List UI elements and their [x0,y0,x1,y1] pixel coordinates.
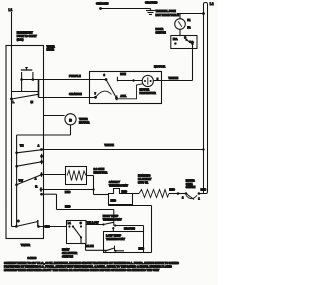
svg-text:PROTECTOR: PROTECTOR [140,91,156,95]
svg-text:THERMOSTAT: THERMOSTAT [103,218,122,222]
svg-text:2.2 OHM: 2.2 OHM [94,167,106,171]
svg-text:RUN: RUN [120,72,126,76]
timer contact mid lever [15,165,18,168]
svg-text:C: C [80,222,82,225]
wire door switch to motor white [192,44,194,49]
svg-text:WHITE: WHITE [105,143,114,147]
svg-text:L: L [13,100,15,104]
svg-text:SWITCH: SWITCH [156,30,166,34]
motor box [90,72,162,104]
svg-text:RED: RED [65,190,71,194]
svg-text:THERMAL FUSE: THERMAL FUSE [156,9,177,13]
svg-text:(N.O.): (N.O.) [17,39,24,42]
svg-text:THERMOSTAT: THERMOSTAT [109,184,128,188]
timer selector lever C [12,226,17,228]
wire L2 rail [204,3,208,194]
svg-text:NUMBERS WHEN SKETCHING ABOUT T: NUMBERS WHEN SKETCHING ABOUT THIS DRYER … [4,268,160,272]
low temp thermostat box [104,232,144,253]
svg-text:CHASSIS: CHASSIS [96,2,109,6]
svg-text:MOMENTARY: MOMENTARY [17,31,33,34]
svg-text:KNOB: KNOB [47,48,55,52]
svg-text:3-16996: 3-16996 [28,257,37,260]
timer box [6,46,44,239]
svg-text:TH: TH [20,143,24,147]
wire pushbutton row [12,91,39,93]
heating element [139,190,169,198]
high temp thermostat contact [102,223,104,225]
svg-text:WHITE: WHITE [169,76,179,80]
svg-text:RED: RED [111,199,117,203]
svg-text:RED: RED [65,205,71,209]
svg-text:CONNECT DRYER TO 230 V.A.C., 6: CONNECT DRYER TO 230 V.A.C., 60 HZ. INDI… [4,261,179,265]
svg-text:PURPLE: PURPLE [69,74,81,78]
svg-text:ORANGE: ORANGE [69,92,82,96]
timer contact M tick [38,79,40,98]
motor centrifugal switch [185,192,188,195]
timer contact row3 [40,160,43,163]
wire L1 rail [11,12,13,227]
wire orange row [39,97,96,99]
resistor zigzag [67,171,86,181]
svg-text:PROTECTED BY MAXIMUM 30 A. FUS: PROTECTED BY MAXIMUM 30 A. FUSES. ALWAYS… [4,265,172,269]
wire chassis to ground [101,8,151,10]
wire brown [115,225,143,227]
svg-text:GROUND: GROUND [145,0,157,4]
svg-text:RED: RED [45,226,50,229]
svg-text:MOTOR: MOTOR [154,64,166,68]
svg-text:MOTOR: MOTOR [79,121,89,125]
svg-text:3750 W.: 3750 W. [138,181,148,185]
svg-text:DOOR: DOOR [156,27,164,31]
pushbutton momentary push-to-start [21,69,33,71]
resistor box [66,167,87,185]
wire purple row [22,79,106,81]
wire timer motor top [44,115,65,117]
svg-text:RED: RED [169,188,175,192]
wire timer motor bottom [70,125,72,135]
wire red row from R [41,189,94,191]
svg-text:TIMER: TIMER [21,243,31,247]
svg-text:L1: L1 [9,8,13,12]
wire heater in [133,193,140,195]
motor M circle [142,75,153,86]
svg-text:R: R [35,185,37,189]
svg-text:RED: RED [139,246,145,250]
wire resistor feed [42,174,66,176]
door switch box [171,36,197,49]
wire fuse to L2 [177,13,204,15]
wire white motor out [153,80,192,82]
svg-text:RESISTOR: RESISTOR [94,170,108,174]
wire red row 2 [42,193,57,195]
timer motor circle [65,114,76,125]
wire yellow [86,224,104,226]
svg-text:SWITCH: SWITCH [186,186,196,189]
wire safety bottom loop [108,205,110,206]
timer switch lever L-M [10,98,13,101]
svg-text:BROWN: BROWN [124,227,135,231]
svg-text:PUSH TO START: PUSH TO START [17,35,37,38]
svg-text:BLUE: BLUE [86,244,94,248]
heat selector switch box [67,221,87,244]
svg-text:B: B [69,118,72,122]
svg-text:RED: RED [122,189,128,193]
svg-text:AUX.: AUX. [120,94,126,98]
timer contact row2 [40,155,43,158]
svg-text:C: C [17,219,19,223]
thermal fuse circle [175,19,186,30]
svg-text:L2: L2 [210,2,214,6]
safety thermostat box with bump [109,189,133,205]
motor aux arc [96,91,112,97]
wire white row [40,148,43,151]
motor internal lever [106,80,117,99]
wire selector to heat selector box [39,226,67,228]
wire low temp return [144,252,152,254]
wire heater out [169,193,185,195]
wire resistor to red junction [87,175,94,177]
svg-text:THERMOSTAT: THERMOSTAT [106,237,125,241]
low temp thermostat contact [104,250,106,252]
svg-text:SWITCH: SWITCH [62,255,73,259]
timer contact R2 [40,193,43,196]
svg-text:N.C.: N.C. [173,38,178,41]
svg-text:YELLOW: YELLOW [87,221,99,225]
wire timer pivot bus [16,135,18,227]
wire blue [80,237,82,243]
scan noise overlay [0,0,218,285]
wire cent switch to L2 [199,193,204,195]
svg-text:NOT RESETTABLE: NOT RESETTABLE [156,13,180,17]
